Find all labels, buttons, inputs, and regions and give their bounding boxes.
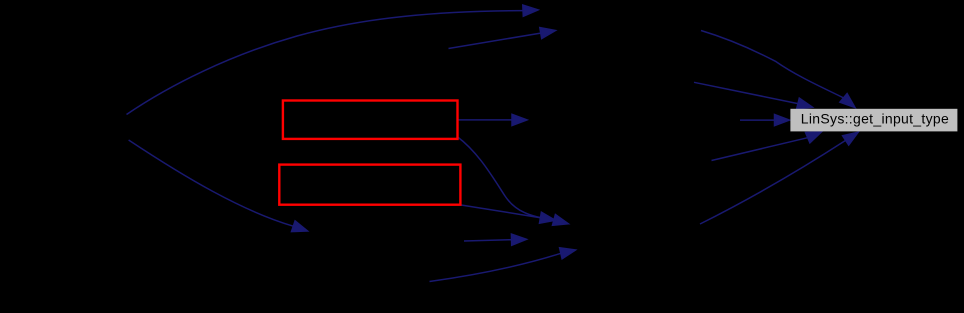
edge main to D (down curve): [129, 140, 308, 232]
edge R1 to M5: [458, 114, 527, 125]
node R1 (red truncated caller box): [283, 101, 458, 139]
edge M1 to A: [449, 28, 556, 49]
edge M3 to B: [430, 248, 576, 282]
edge M4 to target: [694, 82, 813, 109]
edge R2 to B: [461, 205, 555, 223]
edge A to target: [701, 31, 855, 108]
svg-text:LinSys::get_input_type: LinSys::get_input_type: [801, 111, 949, 127]
edge M5 to target: [740, 115, 790, 126]
node LinSys::get_input_type (current node, grey fill): [790, 109, 957, 132]
edge R1 to B (s-curve): [457, 137, 568, 226]
edge main to A (top curve): [127, 5, 539, 115]
edge M2 to B: [464, 234, 527, 245]
node R2 (red truncated caller box): [279, 165, 460, 205]
edge M6 to target: [712, 132, 822, 161]
edge B to target: [700, 132, 858, 224]
